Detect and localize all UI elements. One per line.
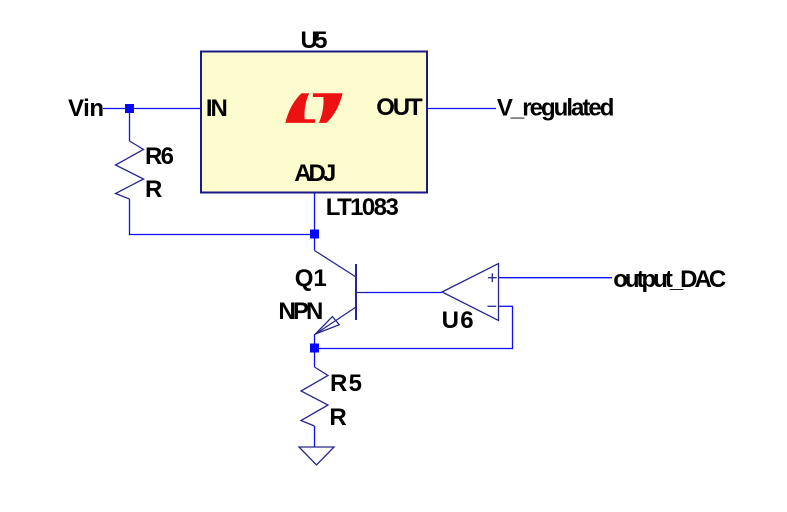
svg-text:NPN: NPN	[278, 298, 323, 325]
svg-text:R: R	[329, 404, 346, 431]
svg-text:output_DAC: output_DAC	[613, 266, 726, 293]
svg-text:ADJ: ADJ	[294, 160, 336, 187]
svg-text:U5: U5	[301, 27, 328, 54]
svg-text:Vin: Vin	[68, 95, 104, 122]
svg-text:U6: U6	[442, 307, 474, 334]
svg-text:R: R	[145, 176, 162, 203]
svg-text:R5: R5	[330, 370, 362, 397]
svg-text:LT1083: LT1083	[326, 194, 399, 221]
svg-text:OUT: OUT	[376, 94, 423, 121]
svg-text:Q1: Q1	[295, 265, 327, 292]
svg-text:R6: R6	[145, 143, 174, 170]
svg-text:V_regulated: V_regulated	[497, 95, 615, 122]
svg-text:IN: IN	[206, 95, 228, 122]
